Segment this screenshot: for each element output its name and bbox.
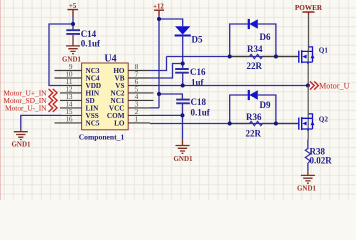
- wire VSS to ground: [21, 115, 62, 129]
- wire +5 to C14 and VDD: [49, 17, 73, 86]
- power POWER: [295, 4, 323, 15]
- wire D5 to VB node: [182, 36, 184, 70]
- pin 9 NC3: [55, 70, 82, 72]
- svg-text:GND1: GND1: [297, 185, 317, 193]
- IC U4 body: [82, 63, 129, 130]
- pin 3 VCC: [128, 107, 150, 109]
- svg-text:+12: +12: [153, 3, 164, 10]
- svg-text:16: 16: [66, 115, 74, 123]
- resistor R36: [230, 112, 299, 139]
- wire gate line HO to Q1: [167, 56, 299, 58]
- wire +12 to D5: [159, 19, 183, 26]
- resistor R38: [305, 147, 332, 166]
- resistor R34: [230, 44, 299, 71]
- pin numbers right: [135, 63, 139, 123]
- diode D6 with parallel R34: [230, 19, 276, 57]
- pin 2 COM: [128, 114, 150, 116]
- svg-text:C18: C18: [191, 97, 207, 107]
- ground GND1 under C18: [173, 140, 193, 163]
- pin 6 VS: [128, 85, 150, 87]
- wire HO riser to gate line: [150, 57, 167, 71]
- svg-text:U4: U4: [104, 54, 116, 65]
- pin 7 VB: [128, 77, 150, 79]
- capacitor C16: [175, 67, 206, 88]
- pin 11 VDD: [62, 85, 82, 87]
- wire VS line to Motor_U node: [150, 85, 308, 87]
- node VB junction: [181, 62, 185, 66]
- port Motor_U: [310, 81, 350, 90]
- node +5/C14 junction: [71, 22, 75, 26]
- pin 12 HIN: [60, 92, 82, 94]
- svg-text:Q2: Q2: [319, 116, 329, 124]
- pin 8 HO: [128, 70, 150, 72]
- diode D9 with parallel R36: [230, 90, 276, 124]
- diode D5: [175, 26, 203, 44]
- ground GND1 under C14: [62, 35, 82, 64]
- pin 1 LO: [128, 122, 150, 124]
- svg-text:R34: R34: [247, 44, 263, 54]
- capacitor C18: [176, 97, 211, 118]
- wire VCC branch to C18: [159, 94, 182, 100]
- svg-text:C14: C14: [81, 29, 97, 39]
- pin 4 NC1: [128, 99, 153, 101]
- node LO line left: [228, 122, 232, 126]
- pin 14 LIN: [60, 107, 82, 109]
- port Motor_U-_IN: [5, 103, 57, 112]
- svg-text:Motor_U-_IN: Motor_U-_IN: [5, 103, 47, 112]
- svg-text:D9: D9: [260, 100, 271, 110]
- pin numbers left: [66, 63, 74, 123]
- svg-text:NC5: NC5: [86, 119, 100, 127]
- transistor Q2: [299, 114, 329, 131]
- pin 5 NC2: [128, 92, 153, 94]
- node C16/VS junction: [181, 84, 185, 88]
- svg-text:Component_1: Component_1: [79, 132, 125, 141]
- wire R38 to ground: [307, 163, 309, 172]
- node gate line right: [274, 55, 278, 59]
- svg-text:GND1: GND1: [11, 141, 31, 149]
- wire Motor_U node through Q2 to source pin: [307, 86, 309, 140]
- wire LO line to Q2: [150, 123, 298, 125]
- svg-text:GND1: GND1: [173, 155, 193, 163]
- wire C16 bottom to VS line: [182, 73, 184, 86]
- pin 16 NC5: [55, 122, 82, 124]
- pin 13 SD: [60, 99, 82, 101]
- svg-text:22R: 22R: [246, 129, 262, 139]
- svg-text:LO: LO: [114, 119, 125, 127]
- svg-text:R36: R36: [246, 112, 262, 122]
- transistor Q1: [299, 47, 329, 65]
- node Motor_U junction: [306, 84, 310, 88]
- node COM/C18 junction: [181, 113, 185, 117]
- sheet border sliver: [0, 0, 1, 200]
- svg-text:1: 1: [135, 115, 139, 123]
- wire Q2 source to R38: [307, 140, 309, 150]
- svg-text:0.1uf: 0.1uf: [81, 39, 101, 49]
- svg-text:Q1: Q1: [319, 47, 329, 55]
- port Motor_U+_IN: [3, 88, 57, 97]
- wire VB pin to node: [150, 64, 181, 79]
- wire Q1 drain-source column: [307, 50, 309, 86]
- svg-text:Motor_U: Motor_U: [319, 81, 350, 90]
- svg-text:0.02R: 0.02R: [310, 156, 333, 166]
- pin 10 NC4: [55, 77, 82, 79]
- svg-text:0.1uf: 0.1uf: [191, 108, 211, 118]
- svg-text:22R: 22R: [247, 61, 263, 71]
- node VCC/C18 junction: [157, 92, 161, 96]
- svg-text:POWER: POWER: [295, 4, 323, 12]
- power +12: [153, 3, 164, 15]
- node +12 junction: [157, 17, 161, 21]
- wire C18 bottom / COM to ground: [150, 103, 183, 139]
- svg-text:C16: C16: [190, 67, 206, 77]
- ground GND1 under R38: [297, 172, 317, 193]
- pin names left: [86, 67, 102, 127]
- pin 15 VSS: [62, 114, 82, 116]
- power +5: [67, 3, 78, 17]
- wire POWER to Q1 drain: [308, 15, 310, 51]
- ground GND1 left: [11, 129, 31, 148]
- svg-text:D5: D5: [192, 35, 203, 45]
- pin names right: [107, 67, 125, 127]
- capacitor C14: [66, 29, 101, 49]
- node gate line left: [228, 55, 232, 59]
- port Motor_SD_IN: [3, 96, 57, 105]
- svg-text:+5: +5: [69, 3, 77, 10]
- svg-text:D6: D6: [260, 32, 271, 42]
- wire +12 vertical to VCC: [150, 16, 159, 108]
- node LO line right: [274, 122, 278, 126]
